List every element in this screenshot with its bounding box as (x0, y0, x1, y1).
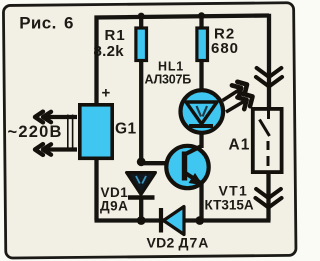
svg-text:КТ315А: КТ315А (205, 198, 254, 213)
svg-text:Д9А: Д9А (100, 199, 128, 214)
svg-text:R1: R1 (105, 27, 126, 44)
svg-text:VT1: VT1 (219, 183, 249, 199)
svg-text:VD2: VD2 (147, 235, 175, 251)
svg-text:~220В: ~220В (8, 123, 63, 141)
svg-text:A1: A1 (229, 137, 251, 154)
svg-text:680: 680 (211, 40, 239, 57)
svg-text:Д7А: Д7А (179, 235, 210, 251)
svg-text:HL1: HL1 (158, 60, 184, 74)
svg-text:АЛ307Б: АЛ307Б (145, 73, 192, 87)
svg-text:Рис.: Рис. (19, 14, 57, 33)
svg-text:G1: G1 (115, 121, 137, 138)
svg-text:6: 6 (64, 14, 73, 33)
svg-text:+: + (102, 85, 111, 102)
